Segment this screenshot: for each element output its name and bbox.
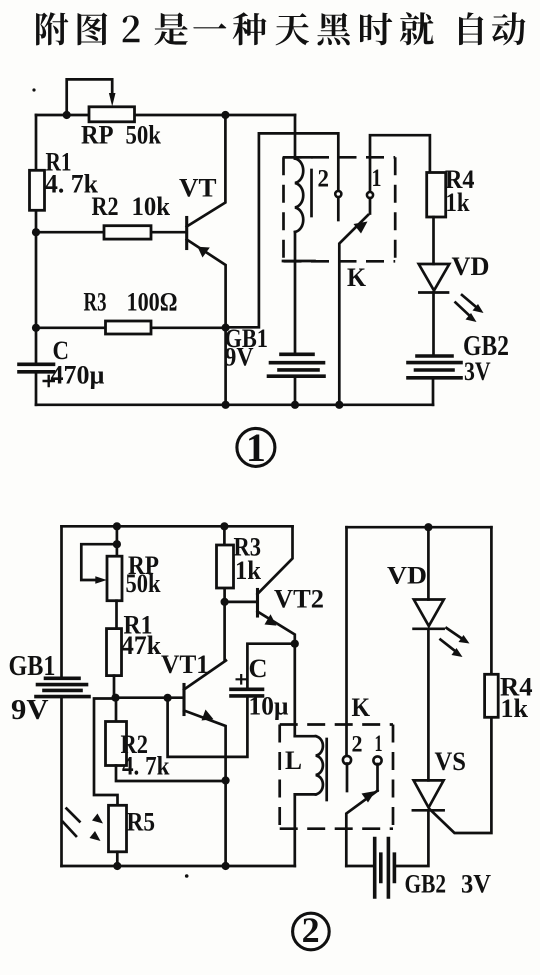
svg-text:1k: 1k [235, 556, 262, 585]
LED VD triangle [419, 264, 450, 291]
battery GB2 plates [408, 356, 461, 378]
wire right rail down to contact 2 [345, 527, 348, 756]
wire VD to thyristor VS [427, 629, 430, 781]
battery GB1 plates [269, 354, 325, 376]
transistor VT2 collector lead [258, 526, 293, 594]
svg-text:10µ: 10µ [249, 692, 289, 721]
transistor VT2 emitter lead [258, 612, 295, 644]
potentiometer RP 50k box [89, 107, 135, 122]
wire emitter node to capacitor C [247, 644, 294, 689]
capacitor + polarity mark [236, 674, 248, 685]
node junction R5 / bottom rail [113, 862, 121, 870]
svg-text:9V: 9V [225, 343, 254, 372]
svg-text:GB2: GB2 [405, 870, 447, 899]
circuit 2 bottom rail wire [62, 865, 295, 868]
title text 附图2是一种天黑时就自动 [36, 12, 525, 45]
wire rail to R4 circuit2 [490, 527, 493, 674]
svg-text:1k: 1k [446, 188, 470, 217]
svg-text:VD: VD [387, 563, 427, 590]
LED light arrow 2 [456, 303, 472, 318]
R5 light arrow 1 [67, 809, 80, 822]
node junction left rail / R3 [32, 324, 40, 332]
wire RP wiper bracket [67, 79, 113, 115]
LED light arrow 1 [447, 628, 465, 640]
svg-text:2: 2 [318, 166, 330, 193]
wire R3 row [36, 326, 226, 329]
capacitor C plates circuit2 [231, 689, 263, 696]
node junction emitter / R2 wire [222, 776, 230, 784]
node junction collector / top rail [221, 111, 229, 119]
wire VS to battery [394, 810, 428, 866]
relay coil L bottom bar [295, 793, 316, 796]
svg-text:K: K [347, 263, 367, 292]
figure number 1 circle [237, 428, 275, 466]
capacitor C plates [19, 364, 54, 372]
svg-text:50k: 50k [126, 121, 162, 150]
switch arm arrowhead circuit2 [362, 791, 376, 803]
resistor R5 box (photoresistor) [109, 805, 127, 852]
node junction top rail / RP [113, 522, 121, 530]
svg-text:4. 7k: 4. 7k [45, 170, 99, 199]
transistor VT base bar [185, 218, 188, 249]
svg-text:VT1: VT1 [161, 650, 209, 679]
circuit 1 left rail wire [35, 115, 38, 405]
transistor VT emitter lead [187, 240, 226, 405]
relay coil top bar [284, 156, 312, 159]
node junction right top rail / VD [424, 523, 432, 531]
svg-text:1: 1 [372, 165, 382, 192]
node junction R1 / base wire [111, 694, 119, 702]
wire rail to RP [116, 526, 119, 556]
svg-text:1: 1 [375, 731, 383, 756]
thyristor VS cathode bar [413, 809, 444, 812]
svg-text:VD: VD [452, 252, 490, 281]
node junction bracket / RP wire [113, 540, 121, 548]
node junction emitter / bottom rail [222, 401, 230, 409]
RP wiper arrowhead [95, 576, 107, 584]
resistor R3 box circuit2 [217, 545, 234, 588]
wire GB1 to bottom rail [294, 376, 297, 405]
relay dashed box circuit 2 [280, 725, 393, 829]
VT2 emitter arrowhead [265, 614, 277, 625]
node junction emitter / R3 wire [222, 324, 230, 332]
thyristor VS gate wire to R4 [430, 717, 491, 833]
svg-text:4. 7k: 4. 7k [122, 752, 170, 781]
wire emitter row to relay frame right riser [226, 133, 339, 327]
svg-text:2: 2 [352, 732, 363, 757]
battery GB1 circuit2 plates [36, 678, 89, 696]
circuit 2 right section top wire [347, 526, 492, 529]
RP wiper arrowhead [109, 93, 116, 107]
svg-text:3V: 3V [461, 870, 491, 899]
wire coil to bottom rail [293, 794, 296, 866]
relay coil windings [295, 159, 303, 233]
wire R3 to collector node [223, 590, 226, 602]
wire contact 1 up and over to R4 [370, 135, 430, 191]
svg-text:470µ: 470µ [51, 361, 105, 390]
wire top rail down to relay coil [294, 115, 297, 159]
resistor R3 box [106, 321, 152, 334]
transistor VT1 emitter lead [184, 711, 226, 867]
LED light arrow 1 [462, 295, 479, 309]
LED VD cathode bar [414, 627, 444, 630]
VT1 emitter arrowhead [202, 710, 214, 721]
wire R2 bottom to emitter rail [116, 766, 226, 782]
relay contact 2 circle [335, 191, 341, 197]
contact 1 lower stub wire [369, 198, 372, 214]
wire base node down-left to R5 [94, 699, 118, 806]
wire GB2 to bottom rail [432, 378, 435, 405]
R5 light arrow 2 [63, 822, 76, 836]
relay contact 1 circle circuit2 [373, 756, 381, 764]
wire RP to R1 [115, 601, 118, 629]
node junction rail / R3 [220, 522, 228, 530]
wire node down to VT1 collector [223, 602, 226, 661]
battery GB2 circuit2 plates [375, 839, 395, 897]
circuit 2 top left rail wire [62, 525, 293, 528]
resistor R1 box [30, 170, 45, 210]
circuit 1 bottom rail wire [36, 403, 433, 406]
node junction base wire / C loop [164, 694, 172, 702]
transistor VT1 base bar [182, 685, 185, 715]
resistor R4 box circuit2 [485, 674, 499, 717]
potentiometer RP box circuit2 [107, 556, 122, 601]
resistor R4 box [427, 173, 446, 218]
scan speck bottom [185, 874, 189, 878]
wire rail to LED VD [427, 527, 430, 599]
relay coil L windings [316, 736, 323, 794]
contact 2 lower stub wire [337, 197, 340, 220]
svg-text:R3: R3 [84, 288, 107, 317]
capacitor + polarity mark [43, 375, 56, 387]
wire C bottom loop to base node [168, 696, 248, 757]
thyristor VS triangle [414, 780, 444, 807]
svg-text:3V: 3V [464, 356, 491, 386]
svg-text:L: L [285, 746, 302, 775]
svg-text:VT: VT [179, 174, 217, 203]
scan speck [32, 88, 35, 91]
LED light arrow 2 [441, 640, 458, 653]
LED VD cathode bar [419, 291, 448, 294]
svg-text:R2: R2 [92, 192, 119, 221]
svg-text:VS: VS [435, 747, 467, 776]
relay coil core line [325, 739, 328, 800]
relay coil core line [310, 170, 313, 216]
contact 1 lower stub [376, 764, 379, 791]
relay contact 1 circle [367, 192, 373, 198]
svg-text:C: C [249, 654, 268, 683]
RP wiper bracket wire [81, 544, 117, 580]
resistor R1 box circuit2 [107, 629, 122, 676]
svg-text:GB1: GB1 [9, 651, 56, 682]
relay dashed box circuit 1 [284, 157, 396, 261]
svg-text:RP: RP [81, 121, 114, 150]
svg-text:R5: R5 [127, 808, 156, 837]
svg-text:10k: 10k [132, 192, 171, 221]
wire emitter node down to relay coil L [293, 644, 296, 737]
wire R4 to LED VD [432, 217, 435, 264]
svg-text:47k: 47k [121, 631, 162, 660]
wire arm to battery GB2 [346, 865, 374, 868]
node junction R3 / VT2 base / VT1 collector [221, 598, 229, 606]
circuit 2 left rail / GB1 top wire [60, 526, 63, 866]
node junction GB1 / bottom rail [291, 401, 299, 409]
transistor VT collector lead [187, 115, 226, 227]
svg-text:1k: 1k [501, 694, 529, 723]
node junction switch arm / bottom rail [335, 401, 343, 409]
relay switch arm wire K [339, 215, 368, 405]
node junction left rail / R2 [32, 228, 40, 236]
resistor R2 box [104, 226, 151, 239]
switch arm arrowhead [354, 222, 368, 234]
figure number 2 circle [293, 913, 330, 950]
contact 2 lower stub [346, 764, 349, 792]
resistor R2 box circuit2 [106, 722, 127, 766]
relay coil bottom bar [283, 260, 315, 263]
LED VD triangle circuit2 [414, 600, 444, 627]
wire R2 to VT base [36, 231, 187, 234]
relay coil L top bar [295, 735, 316, 738]
relay switch arm wire circuit2 [346, 791, 377, 866]
svg-text:50k: 50k [126, 569, 161, 598]
svg-text:K: K [352, 693, 371, 722]
transistor VT1 collector lead [184, 661, 226, 690]
node junction VT2 emitter / C / coil [291, 640, 299, 648]
wire base node to R2 [115, 698, 118, 722]
VT emitter arrowhead (PNP, toward base) [198, 247, 210, 258]
wire coil to battery GB1 [294, 232, 297, 354]
wire R5 to bottom rail [116, 852, 119, 866]
transistor VT2 base bar [256, 590, 259, 617]
wire VD to battery GB2 [432, 293, 435, 357]
circuit 1 top rail wire [36, 114, 295, 117]
svg-text:1: 1 [246, 425, 266, 470]
svg-text:VT2: VT2 [274, 585, 324, 614]
svg-text:9V: 9V [11, 695, 49, 726]
wire R1 to base node [113, 676, 116, 698]
wire base node to VT1 base [116, 696, 185, 699]
wire node to VT2 base [225, 601, 258, 604]
node junction top rail / RP bracket [63, 111, 71, 119]
svg-text:2: 2 [302, 910, 320, 950]
node junction emitter / bottom rail [222, 862, 230, 870]
svg-text:100Ω: 100Ω [127, 288, 178, 317]
wire rail to R3 [223, 526, 226, 545]
relay contact 2 circle circuit2 [343, 756, 351, 764]
